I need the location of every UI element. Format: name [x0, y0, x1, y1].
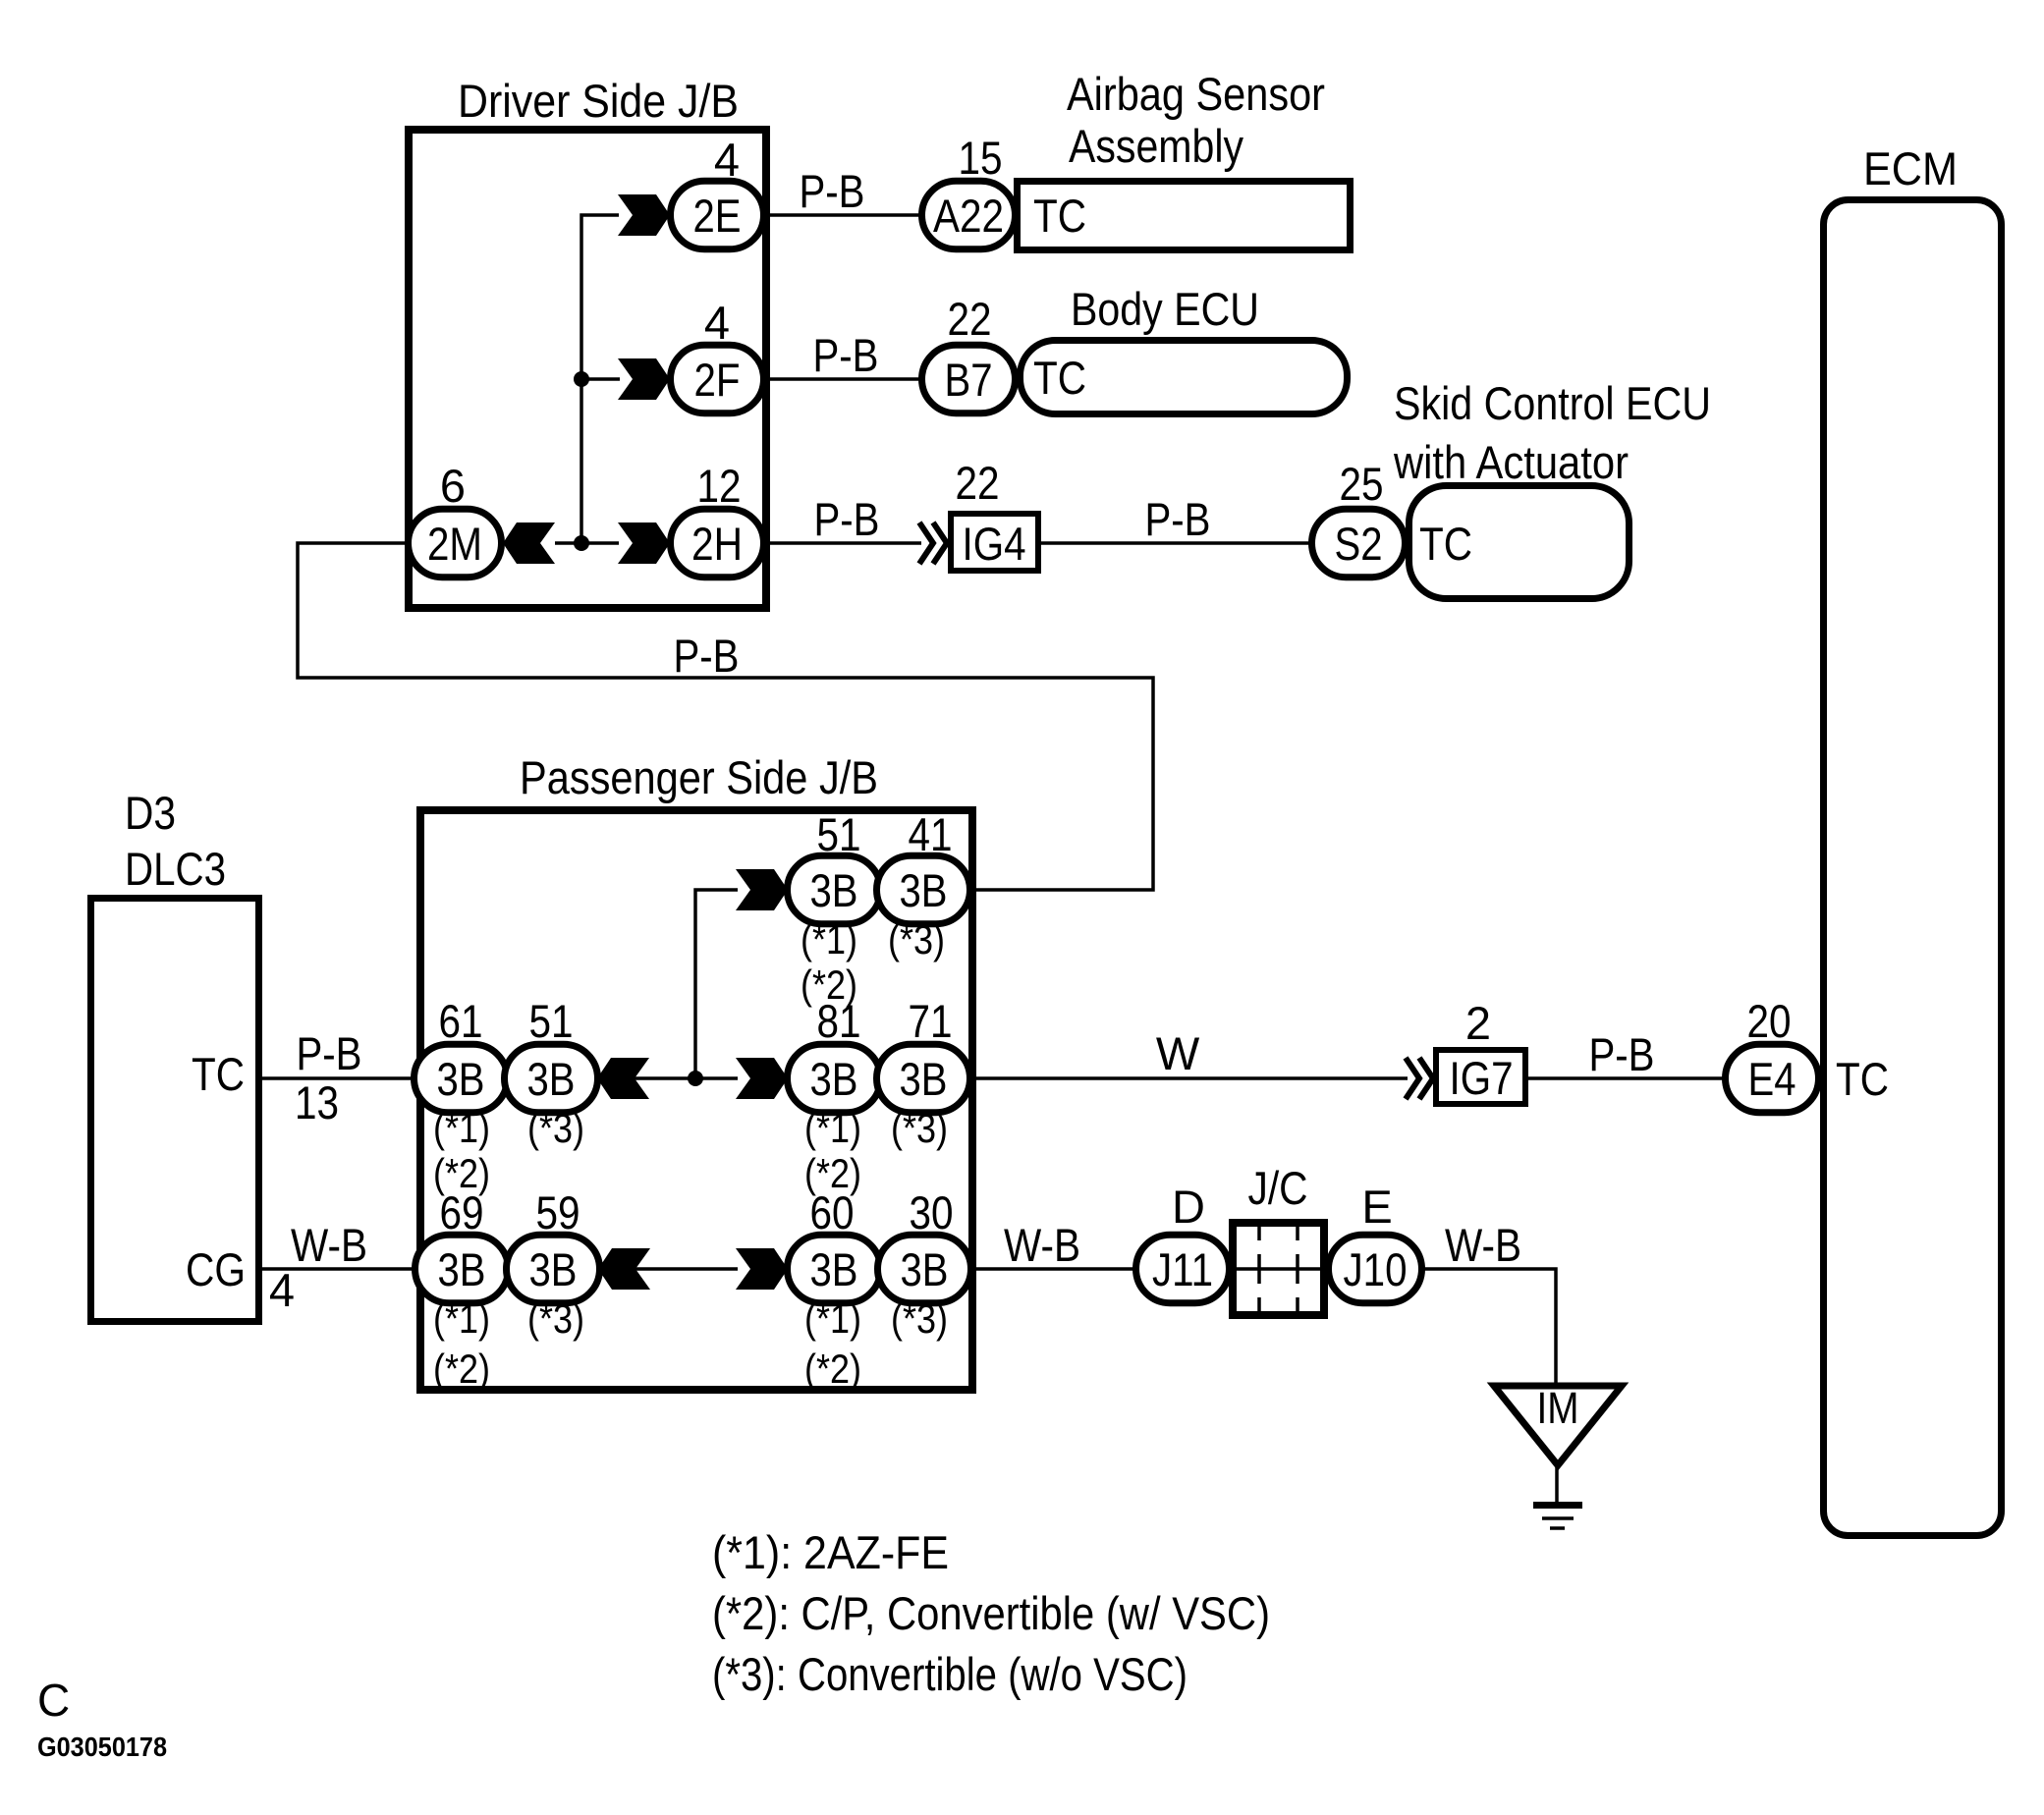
svg-text:J/C: J/C — [1248, 1162, 1308, 1214]
svg-text:C: C — [37, 1675, 70, 1726]
wire W-B from DLC3 CG pin 4 to Passenger J/B — [262, 1219, 418, 1316]
wire P-B from IG4 to S2 — [1041, 493, 1315, 545]
svg-text:13: 13 — [295, 1076, 339, 1128]
svg-text:60: 60 — [810, 1186, 855, 1238]
wire P-B long run from 2M to Passenger J/B — [298, 543, 1153, 890]
splice arrow into 3B pin 51 row 1 — [736, 869, 788, 910]
svg-text:(*2): (*2) — [433, 1346, 490, 1392]
wire W-B from J10 to ground IM — [1420, 1219, 1556, 1388]
svg-text:TC: TC — [1836, 1053, 1889, 1105]
connector 2H pin 12 — [671, 460, 764, 577]
connector 3B pin 69 (*1)(*2) row 3 — [415, 1186, 509, 1392]
connector J11 (D) — [1136, 1181, 1230, 1303]
svg-text:51: 51 — [817, 808, 861, 860]
svg-text:20: 20 — [1747, 995, 1792, 1047]
svg-text:(*1): (*1) — [804, 1295, 861, 1342]
svg-text:Driver Side J/B: Driver Side J/B — [458, 75, 739, 127]
connector J10 (E) — [1329, 1181, 1422, 1303]
svg-text:41: 41 — [909, 808, 953, 860]
svg-text:(*1): (*1) — [801, 916, 857, 962]
svg-text:CG: CG — [186, 1243, 246, 1295]
component: DLC3 connector D3 box — [91, 787, 259, 1322]
svg-text:TC: TC — [1419, 518, 1472, 570]
svg-text:A22: A22 — [933, 190, 1004, 242]
wire P-B from IG7 to E4 — [1528, 1028, 1729, 1080]
connector 2M pin 6 — [409, 460, 502, 577]
component: Skid Control ECU with Actuator box, terminal TC — [1393, 377, 1711, 599]
junction block: Passenger Side J/B box — [420, 751, 972, 1390]
component: Airbag Sensor Assembly box, terminal TC — [1018, 68, 1351, 250]
connector 3B pin 71 (*3) row 2 — [877, 995, 970, 1151]
svg-text:12: 12 — [697, 460, 742, 512]
svg-text:E4: E4 — [1748, 1053, 1796, 1105]
svg-text:Assembly: Assembly — [1069, 120, 1243, 172]
svg-text:2H: 2H — [691, 518, 743, 570]
svg-text:4: 4 — [704, 297, 730, 349]
svg-text:(*2): (*2) — [804, 1346, 861, 1392]
svg-text:Passenger Side J/B: Passenger Side J/B — [520, 751, 878, 803]
connector S2 pin 25 — [1312, 458, 1406, 577]
svg-text:D: D — [1172, 1181, 1205, 1233]
svg-text:3B: 3B — [901, 1243, 949, 1295]
wire W from 3B pin 71 to IG7 — [970, 1027, 1408, 1079]
connector 3B pin 60 (*1)(*2) row 3 — [788, 1186, 881, 1392]
connector E4 pin 20 — [1726, 995, 1819, 1113]
wire W-B from 3B pin 30 to J11 — [970, 1219, 1139, 1271]
component: ECM box, terminal TC — [1824, 142, 2002, 1536]
svg-text:81: 81 — [817, 995, 861, 1047]
svg-text:ECM: ECM — [1863, 142, 1958, 194]
svg-text:Body ECU: Body ECU — [1071, 283, 1259, 335]
svg-text:(*3): (*3) — [888, 916, 945, 962]
connector 3B pin 41 (*3) row 1 — [877, 808, 970, 962]
splice arrow into 2F — [618, 358, 670, 400]
svg-text:P-B: P-B — [814, 493, 880, 545]
svg-text:W: W — [1156, 1027, 1200, 1079]
svg-text:W-B: W-B — [291, 1219, 367, 1271]
connector 3B pin 81 (*1)(*2) row 2 — [788, 995, 881, 1196]
svg-text:(*3): (*3) — [527, 1295, 584, 1342]
splice arrow out of 3B pin 51 row 2 — [597, 1058, 649, 1099]
node: junction dot on 2M/2H branch — [574, 535, 589, 551]
svg-text:61: 61 — [439, 995, 483, 1047]
svg-text:3B: 3B — [810, 1243, 858, 1295]
svg-text:3B: 3B — [810, 1053, 858, 1105]
wire P-B from DLC3 TC pin 13 to Passenger J/B — [262, 1027, 418, 1128]
wire: internal bus in Passenger Side J/B — [597, 890, 738, 1269]
connector A22 pin 15 — [922, 132, 1016, 249]
svg-text:15: 15 — [959, 132, 1003, 184]
svg-text:(*1): (*1) — [433, 1295, 490, 1342]
svg-text:51: 51 — [529, 995, 574, 1047]
svg-text:(*1): 2AZ-FE: (*1): 2AZ-FE — [712, 1526, 949, 1578]
connector IG7 pin 2 — [1436, 997, 1525, 1104]
svg-text:IG7: IG7 — [1450, 1052, 1514, 1104]
svg-text:IM: IM — [1537, 1383, 1579, 1433]
svg-text:2E: 2E — [693, 190, 742, 242]
svg-text:69: 69 — [440, 1186, 484, 1238]
svg-text:TC: TC — [1033, 190, 1086, 242]
ground symbol — [1533, 1463, 1582, 1528]
svg-text:59: 59 — [536, 1186, 580, 1238]
svg-text:P-B: P-B — [1589, 1028, 1655, 1080]
svg-text:3B: 3B — [437, 1053, 485, 1105]
connector B7 pin 22 — [922, 293, 1016, 413]
svg-text:(*2): C/P, Convertible (w/ VSC: (*2): C/P, Convertible (w/ VSC) — [712, 1587, 1270, 1639]
junction connector J/C — [1230, 1162, 1328, 1315]
svg-text:P-B: P-B — [674, 630, 740, 682]
svg-text:J10: J10 — [1344, 1243, 1408, 1295]
svg-text:P-B: P-B — [297, 1027, 362, 1079]
svg-text:J11: J11 — [1152, 1243, 1213, 1295]
svg-text:3B: 3B — [527, 1053, 576, 1105]
svg-text:2: 2 — [1465, 997, 1491, 1049]
svg-text:3B: 3B — [900, 1053, 948, 1105]
svg-text:D3: D3 — [125, 787, 176, 839]
svg-text:IG4: IG4 — [963, 518, 1026, 570]
svg-text:Skid Control ECU: Skid Control ECU — [1394, 377, 1711, 429]
splice arrow into 2H — [618, 522, 670, 564]
svg-text:6: 6 — [440, 460, 466, 512]
svg-text:30: 30 — [910, 1186, 954, 1238]
wire P-B from 2H to IG4 — [766, 493, 921, 545]
node: junction dot on 2F branch — [574, 371, 589, 387]
junction block: Driver Side J/B box — [409, 75, 766, 608]
connector 2E pin 4 — [671, 134, 764, 249]
svg-text:71: 71 — [909, 995, 953, 1047]
svg-text:2M: 2M — [427, 518, 482, 570]
component: Body ECU box, terminal TC — [1021, 283, 1348, 414]
splice arrow into 3B pin 81 row 2 — [736, 1058, 788, 1099]
svg-text:W-B: W-B — [1004, 1219, 1080, 1271]
splice chevrons into IG7 — [1406, 1058, 1419, 1099]
svg-text:Airbag Sensor: Airbag Sensor — [1067, 68, 1325, 120]
splice arrow into 2E — [618, 194, 670, 236]
connector 3B pin 61 (*1)(*2) row 2 — [414, 995, 508, 1196]
svg-text:(*1): (*1) — [433, 1105, 490, 1151]
node: junction dot row 2 — [688, 1071, 703, 1086]
svg-text:DLC3: DLC3 — [125, 843, 226, 895]
svg-text:(*3): (*3) — [891, 1295, 948, 1342]
svg-text:W-B: W-B — [1445, 1219, 1521, 1271]
wire P-B from 2E to A22 — [763, 165, 924, 217]
svg-text:P-B: P-B — [1145, 493, 1211, 545]
svg-text:3B: 3B — [810, 864, 858, 916]
svg-text:25: 25 — [1340, 458, 1384, 510]
splice chevrons into IG4 — [919, 522, 933, 564]
connector 3B pin 51 (*3) row 2 — [505, 995, 598, 1151]
wire P-B from 2F to B7 — [763, 329, 924, 381]
svg-text:(*1): (*1) — [804, 1105, 861, 1151]
svg-text:P-B: P-B — [813, 329, 879, 381]
connector 3B pin 30 (*3) row 3 — [878, 1186, 971, 1342]
svg-text:4: 4 — [269, 1264, 295, 1316]
svg-text:3B: 3B — [438, 1243, 486, 1295]
svg-text:4: 4 — [714, 134, 740, 186]
wire: internal bus in Driver Side J/B — [555, 215, 620, 543]
connector 3B pin 51 (*1)(*2) row 1 — [788, 808, 881, 1008]
svg-text:TC: TC — [192, 1048, 245, 1100]
svg-text:3B: 3B — [529, 1243, 578, 1295]
splice arrow into 2M — [503, 522, 555, 564]
svg-text:3B: 3B — [900, 864, 948, 916]
svg-text:(*3): Convertible (w/o VSC): (*3): Convertible (w/o VSC) — [712, 1648, 1188, 1700]
svg-text:22: 22 — [956, 457, 1000, 509]
svg-text:E: E — [1361, 1181, 1392, 1233]
svg-text:22: 22 — [948, 293, 992, 345]
connector IG4 pin 22 — [951, 457, 1038, 571]
svg-text:P-B: P-B — [800, 165, 865, 217]
ground point IM triangle — [1494, 1383, 1622, 1465]
svg-text:with Actuator: with Actuator — [1393, 436, 1629, 488]
svg-text:B7: B7 — [945, 354, 993, 406]
svg-text:G03050178: G03050178 — [37, 1732, 167, 1762]
splice arrow into 3B pin 60 row 3 — [736, 1248, 788, 1290]
svg-text:TC: TC — [1033, 352, 1086, 404]
connector 2F pin 4 — [671, 297, 764, 413]
svg-text:(*3): (*3) — [527, 1105, 584, 1151]
connector 3B pin 59 (*3) row 3 — [507, 1186, 600, 1342]
splice arrow out of 3B pin 59 row 3 — [598, 1248, 650, 1290]
svg-text:2F: 2F — [694, 354, 741, 406]
svg-text:S2: S2 — [1335, 518, 1383, 570]
svg-text:(*3): (*3) — [891, 1105, 948, 1151]
